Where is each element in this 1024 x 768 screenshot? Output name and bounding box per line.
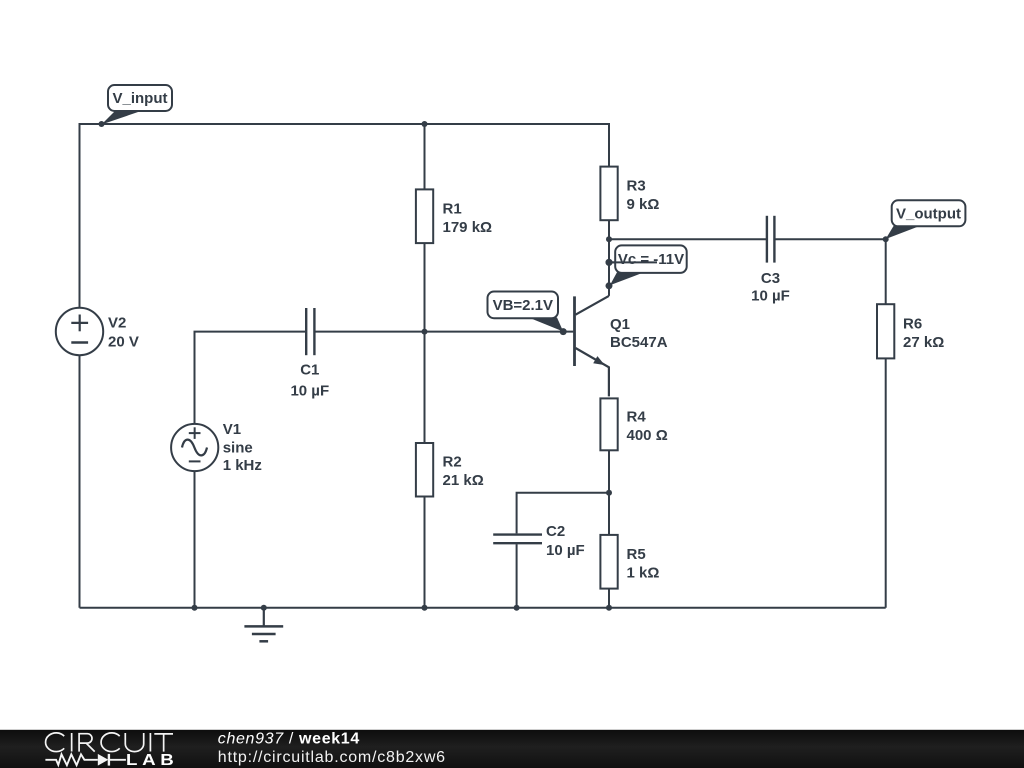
wire V_output node to R6 [885, 239, 887, 304]
capacitor C2 [493, 535, 542, 544]
node collector junction [606, 236, 612, 242]
svg-text:VB=2.1V: VB=2.1V [493, 297, 553, 314]
wire R4 to emitter junction [608, 450, 610, 493]
resistor R5 [600, 535, 617, 589]
wire R6 to ground rail [885, 358, 887, 607]
svg-text:V_input: V_input [113, 90, 168, 107]
wire emitter junction to R5 [608, 493, 610, 535]
node V1 ground junction [192, 605, 198, 611]
svg-text:R6: R6 [903, 316, 922, 333]
capacitor C1 [306, 308, 314, 355]
wire C1 right to base [314, 331, 573, 333]
node base junction [422, 329, 428, 335]
wire R1 to base node [424, 243, 426, 332]
resistor R2 [416, 443, 433, 497]
wire C2 top branch [517, 493, 609, 534]
wire C2 bottom [516, 544, 518, 608]
svg-text:R4: R4 [627, 409, 647, 426]
svg-text:10 µF: 10 µF [290, 382, 329, 399]
capacitor C3 [767, 216, 775, 263]
logo CIRCUIT wordmark [46, 733, 173, 752]
node R2 ground junction [422, 605, 428, 611]
svg-text:LAB: LAB [126, 750, 179, 768]
svg-text:10 µF: 10 µF [751, 287, 790, 304]
svg-text:R2: R2 [443, 454, 462, 471]
node Vc anchor [606, 282, 613, 289]
wire base node to R2 [424, 332, 426, 443]
node V_input anchor [99, 121, 105, 127]
svg-text:179 kΩ: 179 kΩ [443, 219, 493, 236]
wire V1 to C1 left [195, 332, 307, 424]
svg-text:V1: V1 [223, 421, 241, 438]
wire R3 bottom to collector node [608, 220, 610, 239]
svg-text:Vc = -11V: Vc = -11V [618, 251, 684, 268]
node R1 top junction [422, 121, 428, 127]
flag VB=2.1V [488, 292, 564, 332]
svg-text:C3: C3 [761, 270, 780, 287]
wire Vc stub [609, 261, 657, 263]
node emitter junction [606, 490, 612, 496]
node C2 ground junction [514, 605, 520, 611]
resistor R4 [600, 398, 617, 450]
svg-text:R3: R3 [627, 178, 646, 195]
ground [244, 608, 283, 642]
svg-text:sine: sine [223, 440, 253, 457]
wire collector node down to Q1 [608, 239, 610, 296]
wire top rail V_input net [80, 124, 610, 608]
svg-text:1 kHz: 1 kHz [223, 457, 262, 474]
svg-text:1 kΩ: 1 kΩ [627, 565, 660, 582]
svg-text:Q1: Q1 [610, 316, 630, 333]
svg-text:V2: V2 [108, 315, 126, 332]
svg-text:10 µF: 10 µF [546, 542, 585, 559]
svg-text:chen937 / week14: chen937 / week14 [218, 731, 360, 748]
resistor R6 [877, 304, 894, 358]
node ground symbol junction [261, 605, 267, 611]
wire C3 to V_output node [774, 238, 886, 240]
flag V_output [886, 200, 966, 239]
svg-text:C2: C2 [546, 523, 565, 540]
node Vc stub anchor [606, 259, 613, 266]
wire R5 to ground rail [608, 589, 610, 608]
logo resistor-diode glyph [45, 754, 126, 766]
svg-text:C1: C1 [300, 362, 319, 379]
voltage source V2 [56, 308, 103, 355]
transistor Q1 [575, 296, 609, 397]
resistor R3 [600, 167, 617, 221]
svg-text:400 Ω: 400 Ω [627, 427, 668, 444]
wire R1 column top [424, 124, 426, 189]
resistor R1 [416, 189, 433, 243]
svg-text:BC547A: BC547A [610, 334, 668, 351]
wire collector rail to C3 [609, 238, 767, 240]
svg-text:V_output: V_output [896, 206, 961, 223]
flag Vc = -11V [606, 245, 687, 285]
svg-text:R5: R5 [627, 546, 646, 563]
voltage source V1 sine [171, 424, 218, 471]
node junction dots [99, 121, 889, 611]
wire bottom rail ground net [80, 607, 886, 609]
node VB anchor [560, 328, 567, 335]
node V_output anchor [883, 236, 889, 242]
svg-text:27 kΩ: 27 kΩ [903, 334, 944, 351]
svg-text:21 kΩ: 21 kΩ [443, 472, 484, 489]
svg-text:http://circuitlab.com/c8b2xw6: http://circuitlab.com/c8b2xw6 [218, 749, 446, 766]
wire V1 bottom [194, 471, 196, 608]
wire R2 to ground rail [424, 497, 426, 608]
svg-text:20 V: 20 V [108, 334, 139, 351]
flag V_input [102, 85, 173, 125]
node R5 ground junction [606, 605, 612, 611]
svg-text:9 kΩ: 9 kΩ [627, 196, 660, 213]
svg-text:R1: R1 [443, 201, 462, 218]
